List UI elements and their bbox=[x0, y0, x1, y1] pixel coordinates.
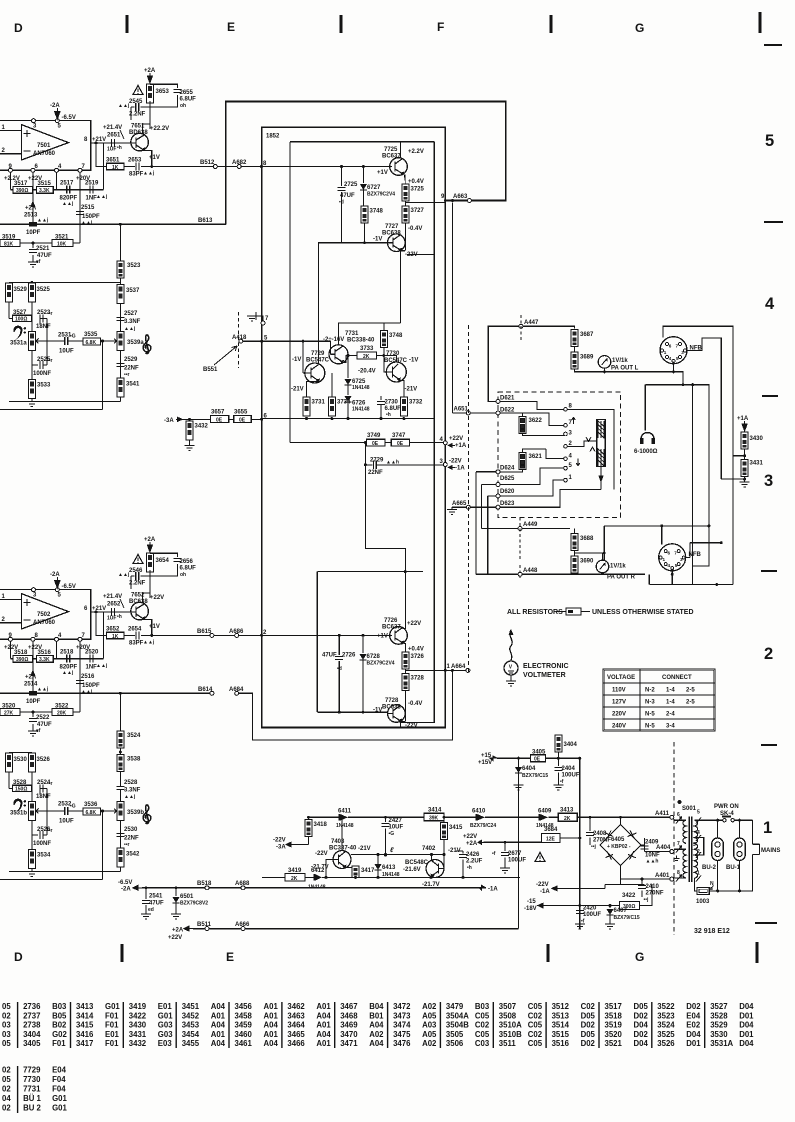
junction 6413 bbox=[377, 876, 380, 879]
svg-text:10K: 10K bbox=[57, 241, 67, 247]
row 220V bbox=[612, 712, 675, 718]
svg-text:2653: 2653 bbox=[128, 158, 142, 164]
junction 2410 bbox=[641, 878, 644, 881]
svg-text:2729: 2729 bbox=[370, 458, 384, 464]
svg-text:ed: ed bbox=[148, 907, 154, 913]
svg-text:•h: •h bbox=[467, 865, 472, 871]
svg-text:3508: 3508 bbox=[499, 1011, 517, 1020]
capacitor 2651 1UF bbox=[107, 139, 122, 153]
resistor 3418 bbox=[305, 820, 328, 837]
svg-text:240V: 240V bbox=[612, 724, 626, 730]
warning triangle 2546 bbox=[133, 555, 143, 564]
svg-text:2529: 2529 bbox=[124, 357, 138, 363]
junction 1 bbox=[444, 669, 447, 672]
svg-text:3: 3 bbox=[680, 557, 683, 562]
svg-text:2517: 2517 bbox=[60, 181, 74, 187]
svg-text:-2A: -2A bbox=[50, 572, 60, 578]
node B511 bbox=[205, 927, 209, 931]
diode D6404 bbox=[515, 766, 548, 779]
svg-text:3: 3 bbox=[33, 124, 37, 130]
svg-text:47UF: 47UF bbox=[340, 193, 355, 199]
junction tone mid bbox=[101, 340, 104, 343]
svg-text:A01: A01 bbox=[211, 1011, 226, 1020]
svg-text:F04: F04 bbox=[52, 1085, 66, 1094]
lamp BU-1 bbox=[734, 838, 746, 861]
right margin dash d bbox=[761, 570, 777, 572]
svg-text:+22V: +22V bbox=[463, 834, 477, 840]
svg-text:F04: F04 bbox=[52, 1075, 66, 1084]
emitter wire 7651 bbox=[148, 151, 152, 167]
svg-text:2522: 2522 bbox=[36, 715, 50, 721]
svg-text:2: 2 bbox=[764, 645, 773, 663]
emitter 7726 bbox=[404, 644, 406, 653]
svg-text:7: 7 bbox=[674, 550, 677, 555]
pin6 junction bbox=[260, 418, 263, 421]
component location table upper bbox=[2, 1002, 754, 1048]
svg-text:6: 6 bbox=[668, 550, 671, 555]
svg-text:3507: 3507 bbox=[499, 1002, 516, 1011]
node 4 bbox=[443, 441, 447, 445]
svg-text:A04: A04 bbox=[264, 1021, 279, 1030]
svg-text:▲▲j: ▲▲j bbox=[143, 640, 155, 646]
svg-text:2527: 2527 bbox=[124, 311, 138, 317]
svg-text:A04: A04 bbox=[211, 1021, 226, 1030]
svg-text:A448: A448 bbox=[523, 568, 538, 574]
svg-text:•G: •G bbox=[70, 334, 76, 340]
ground 6404 bbox=[514, 785, 524, 790]
pin 7 circle bbox=[78, 168, 82, 172]
svg-text:7731: 7731 bbox=[345, 331, 359, 337]
svg-text:100UF: 100UF bbox=[562, 773, 580, 779]
pin2 wire 2 bbox=[0, 622, 21, 624]
node B614 bbox=[210, 691, 214, 695]
mains bracket bbox=[753, 844, 760, 854]
svg-text:3539a: 3539a bbox=[127, 340, 144, 346]
svg-text:3416: 3416 bbox=[76, 1030, 94, 1039]
wire NFB L bbox=[687, 338, 721, 479]
switch right rail bbox=[566, 409, 615, 489]
svg-text:47UF: 47UF bbox=[149, 901, 164, 907]
svg-text:+21.4V: +21.4V bbox=[103, 594, 122, 600]
svg-text:3461: 3461 bbox=[235, 1039, 253, 1048]
wire pin5 base bbox=[243, 340, 331, 342]
svg-text:3504B: 3504B bbox=[446, 1021, 469, 1030]
svg-text:8: 8 bbox=[35, 633, 39, 639]
svg-text:PWR ON: PWR ON bbox=[714, 804, 739, 810]
svg-text:12E: 12E bbox=[546, 837, 556, 843]
capacitor 2541 47UF bbox=[142, 888, 164, 914]
top ruler tick 4 bbox=[759, 12, 762, 33]
svg-text:7725: 7725 bbox=[384, 147, 398, 153]
svg-text:6727: 6727 bbox=[367, 185, 381, 191]
resistor 3733 2K bbox=[357, 352, 377, 360]
top ruler tick 1 bbox=[126, 15, 129, 33]
resistor 3414 39K bbox=[424, 813, 444, 821]
svg-text:-18V: -18V bbox=[524, 906, 537, 912]
2655 loop wire bbox=[150, 84, 178, 107]
svg-text:3.3K: 3.3K bbox=[39, 657, 50, 663]
svg-text:2677: 2677 bbox=[508, 851, 522, 857]
transformer T1 primary bbox=[695, 820, 698, 878]
svg-text:BZX79/C15: BZX79/C15 bbox=[522, 773, 548, 779]
svg-text:F01: F01 bbox=[105, 1039, 119, 1048]
resistor 3687 bbox=[571, 330, 594, 347]
DIN connector R bbox=[659, 544, 686, 573]
svg-text:3516: 3516 bbox=[552, 1039, 570, 1048]
svg-text:BU-1: BU-1 bbox=[726, 865, 741, 871]
resistor 3732 bbox=[400, 397, 423, 416]
svg-text:ℓ: ℓ bbox=[389, 847, 394, 854]
resistor 3654 bbox=[146, 553, 169, 572]
switch contacts column bbox=[564, 408, 568, 482]
ground 6501 bbox=[171, 914, 181, 919]
junction dot 3431 bbox=[743, 478, 746, 481]
svg-text:D04: D04 bbox=[686, 1030, 701, 1039]
svg-text:A447: A447 bbox=[524, 320, 539, 326]
svg-text:6: 6 bbox=[35, 164, 39, 170]
svg-text:▲▲h: ▲▲h bbox=[646, 859, 659, 865]
2729 drop wire bbox=[364, 443, 366, 465]
wire DIN R top bbox=[604, 526, 709, 545]
junction on output 2 bbox=[95, 610, 98, 613]
svg-text:C02: C02 bbox=[581, 1002, 596, 1011]
svg-text:3475: 3475 bbox=[393, 1030, 411, 1039]
wire A665 row bbox=[0, 0, 1, 1]
capacitor 2655 bbox=[174, 90, 197, 110]
svg-text:C05: C05 bbox=[528, 1002, 543, 1011]
svg-text:F01: F01 bbox=[105, 1011, 119, 1020]
svg-text:B512: B512 bbox=[200, 160, 215, 166]
svg-text:3652: 3652 bbox=[106, 627, 120, 633]
diode 6411 bbox=[336, 809, 354, 830]
svg-text:2541: 2541 bbox=[149, 894, 163, 900]
svg-text:A04: A04 bbox=[316, 1030, 331, 1039]
svg-text:3.3K: 3.3K bbox=[39, 188, 50, 194]
psu arrow left bbox=[286, 842, 294, 847]
wire D620 row bbox=[488, 496, 498, 574]
svg-text:••r: ••r bbox=[124, 842, 130, 848]
switch SK-4 bbox=[722, 817, 753, 827]
svg-text:02: 02 bbox=[2, 1066, 11, 1075]
svg-text:3414: 3414 bbox=[428, 808, 442, 814]
svg-text:BU-2: BU-2 bbox=[702, 865, 717, 871]
svg-text:AN7060: AN7060 bbox=[33, 620, 56, 626]
capacitor 2523 bbox=[40, 314, 43, 322]
wiper arrow 3539b bbox=[112, 809, 117, 814]
svg-text:6728: 6728 bbox=[367, 654, 381, 660]
pin2 wire bbox=[0, 153, 21, 155]
svg-text:B551: B551 bbox=[203, 367, 218, 373]
svg-text:C05: C05 bbox=[475, 1030, 490, 1039]
svg-text:A01: A01 bbox=[211, 1030, 226, 1039]
capacitor 2653 83PF bbox=[136, 163, 139, 171]
pin 5 circle 2 bbox=[55, 588, 59, 592]
capacitor 2517 bbox=[67, 186, 70, 194]
svg-text:+22.2V: +22.2V bbox=[150, 126, 169, 132]
wire B613 bbox=[0, 223, 226, 225]
capacitor 2652 1UF bbox=[107, 608, 122, 622]
capacitor 2529 bbox=[116, 364, 124, 367]
svg-text:6404: 6404 bbox=[522, 766, 536, 772]
contact labels bbox=[569, 404, 573, 482]
svg-text:22NF: 22NF bbox=[368, 470, 383, 476]
switch pin column bbox=[565, 409, 567, 480]
svg-text:3452: 3452 bbox=[182, 1011, 200, 1020]
resistor 3734 bbox=[328, 373, 351, 416]
svg-text:390Ω: 390Ω bbox=[16, 188, 28, 194]
svg-text:B04: B04 bbox=[369, 1002, 384, 1011]
svg-text:-2A: -2A bbox=[50, 103, 60, 109]
pin 9 circle bbox=[8, 168, 12, 172]
svg-text:7729: 7729 bbox=[23, 1066, 41, 1075]
resistor 3517 390ohm bbox=[13, 187, 32, 195]
svg-text:3510B: 3510B bbox=[499, 1030, 522, 1039]
svg-text:3725: 3725 bbox=[411, 187, 425, 193]
svg-text:A666: A666 bbox=[235, 922, 250, 928]
svg-text:-22V: -22V bbox=[315, 851, 328, 857]
svg-text:B03: B03 bbox=[52, 1002, 67, 1011]
resistor 3622 bbox=[519, 413, 566, 436]
svg-text:▲▲j: ▲▲j bbox=[118, 103, 130, 109]
resistor 3748a bbox=[361, 206, 384, 223]
collector wire 7652 up bbox=[143, 589, 150, 603]
svg-text:3505: 3505 bbox=[446, 1030, 464, 1039]
svg-text:A686: A686 bbox=[229, 629, 244, 635]
node A664 bbox=[466, 668, 470, 672]
row 240V bbox=[612, 724, 675, 730]
junction 3418 top bbox=[307, 816, 310, 819]
wire A664 stub bbox=[405, 669, 466, 671]
svg-text:A01: A01 bbox=[264, 1011, 279, 1020]
svg-text:100NF: 100NF bbox=[33, 841, 51, 847]
svg-text:V: V bbox=[509, 665, 513, 671]
svg-text:3527: 3527 bbox=[710, 1002, 727, 1011]
junction 7403 col bbox=[341, 816, 344, 819]
resistor 3419 2K bbox=[285, 874, 305, 882]
pin4 drop wire 2 bbox=[56, 641, 58, 659]
svg-text:•G: •G bbox=[70, 804, 76, 810]
transistor Q7726 bbox=[390, 627, 408, 645]
svg-text:3458: 3458 bbox=[235, 1011, 253, 1020]
svg-text:270NF: 270NF bbox=[646, 891, 664, 897]
svg-text:D04: D04 bbox=[739, 1002, 754, 1011]
svg-text:F01: F01 bbox=[105, 1021, 119, 1030]
minus mark 2 bbox=[24, 619, 31, 621]
right margin dash f bbox=[755, 922, 777, 924]
svg-text:••j: ••j bbox=[644, 897, 650, 903]
svg-text:3471: 3471 bbox=[340, 1039, 358, 1048]
svg-text:C02: C02 bbox=[528, 1030, 543, 1039]
plus mark bbox=[24, 130, 31, 137]
svg-text:2726: 2726 bbox=[342, 653, 356, 659]
svg-text:G01: G01 bbox=[158, 1011, 173, 1020]
capacitor 2520 bbox=[90, 655, 93, 663]
node A447 bbox=[519, 324, 523, 328]
svg-text:1: 1 bbox=[447, 664, 451, 670]
svg-text:F: F bbox=[437, 20, 444, 34]
dashed stub A449 bbox=[519, 518, 521, 579]
svg-text:VOLTMETER: VOLTMETER bbox=[523, 672, 566, 679]
pin 4 circle bbox=[55, 168, 59, 172]
svg-text:3689: 3689 bbox=[580, 355, 594, 361]
svg-text:A02: A02 bbox=[422, 1002, 437, 1011]
potentiometer 3531 bbox=[28, 332, 41, 351]
svg-text:+21V: +21V bbox=[92, 137, 106, 143]
capacitor 2522 bbox=[29, 712, 52, 734]
resistor 3413 2K bbox=[558, 813, 577, 822]
svg-text:2.2NF: 2.2NF bbox=[129, 581, 146, 587]
svg-text:6.8UF: 6.8UF bbox=[180, 566, 197, 572]
svg-text:BZX79/C15: BZX79/C15 bbox=[614, 915, 640, 921]
junction meter L bbox=[603, 370, 606, 373]
svg-text:3404: 3404 bbox=[564, 742, 578, 748]
transistor Q7651 bbox=[115, 133, 149, 151]
svg-text:390Ω: 390Ω bbox=[16, 657, 28, 663]
svg-text:PA OUT L: PA OUT L bbox=[611, 366, 639, 372]
junction mid R bbox=[603, 552, 606, 555]
svg-text:3517: 3517 bbox=[605, 1002, 622, 1011]
svg-text:05: 05 bbox=[2, 1002, 11, 1011]
resistor 3621 bbox=[500, 449, 566, 472]
emitter wire 7725 bbox=[404, 175, 406, 185]
node B512 bbox=[213, 165, 217, 169]
junction lamp2 bottom bbox=[738, 889, 741, 892]
svg-text:2520: 2520 bbox=[85, 650, 99, 656]
svg-text:5: 5 bbox=[58, 593, 62, 599]
svg-text:C02: C02 bbox=[475, 1021, 490, 1030]
svg-text:+0.4V: +0.4V bbox=[408, 179, 424, 185]
svg-text:••r: ••r bbox=[47, 311, 53, 317]
svg-text:3726: 3726 bbox=[411, 654, 425, 660]
svg-text:6413: 6413 bbox=[382, 865, 396, 871]
wire +22V row bbox=[290, 442, 445, 444]
svg-text:3531A: 3531A bbox=[710, 1039, 733, 1048]
svg-text:220V: 220V bbox=[612, 712, 626, 718]
svg-text:3456: 3456 bbox=[235, 1002, 253, 1011]
resistor 3690 bbox=[571, 556, 594, 574]
junction 3748b bbox=[382, 354, 385, 357]
svg-text:▲▲j: ▲▲j bbox=[37, 687, 49, 693]
pin 8 circle 2 bbox=[31, 637, 35, 641]
lamp stems top bbox=[718, 820, 740, 838]
primary tap 4 bracket bbox=[695, 838, 704, 855]
svg-text:3657: 3657 bbox=[211, 410, 225, 416]
resistor 3728 bbox=[402, 674, 425, 691]
svg-text:1003: 1003 bbox=[696, 899, 710, 905]
capacitor 2656 bbox=[174, 559, 197, 579]
resistor 3725 bbox=[402, 184, 425, 201]
svg-text:3432: 3432 bbox=[195, 424, 209, 430]
meter PA OUT R bbox=[596, 553, 609, 574]
svg-text:3525: 3525 bbox=[37, 287, 51, 293]
capacitor 2519 bbox=[90, 186, 93, 194]
resistor 3653 bbox=[146, 84, 169, 103]
svg-text:1N4148: 1N4148 bbox=[536, 823, 554, 829]
svg-text:-6.5V: -6.5V bbox=[118, 880, 132, 886]
capacitor 2426 bbox=[456, 851, 483, 877]
right margin dash e bbox=[761, 744, 777, 746]
wire meter L right bbox=[645, 372, 709, 526]
svg-text:6501: 6501 bbox=[180, 894, 194, 900]
wire +2A rail bbox=[484, 841, 561, 843]
svg-text:3474: 3474 bbox=[393, 1021, 411, 1030]
psu +22 arrow bbox=[478, 840, 484, 844]
amplifier module 1852 box bbox=[262, 127, 446, 727]
svg-text:4: 4 bbox=[765, 295, 775, 313]
wire D623 row bbox=[452, 506, 498, 508]
svg-text:2-5: 2-5 bbox=[686, 700, 695, 706]
svg-text:3541: 3541 bbox=[126, 382, 140, 388]
junction 2427 bbox=[384, 816, 387, 819]
switch wiring pin1 bbox=[500, 480, 566, 496]
svg-text:BZX79/C24: BZX79/C24 bbox=[470, 823, 496, 829]
svg-text:3463: 3463 bbox=[287, 1011, 305, 1020]
7731 emitter to 3733 bbox=[344, 356, 357, 363]
svg-text:0E: 0E bbox=[216, 417, 223, 423]
svg-text:+21V: +21V bbox=[92, 606, 106, 612]
svg-text:2519: 2519 bbox=[85, 181, 99, 187]
secondary tap 6 wire bbox=[674, 819, 686, 821]
wire 3733 to 7730 base bbox=[377, 356, 397, 373]
resistor 3748b bbox=[380, 323, 403, 356]
svg-text:D02: D02 bbox=[581, 1039, 596, 1048]
svg-text:2725: 2725 bbox=[344, 182, 358, 188]
feedback wire to output bbox=[103, 143, 105, 190]
svg-text:B03: B03 bbox=[475, 1002, 490, 1011]
svg-text:D04: D04 bbox=[634, 1021, 649, 1030]
wire DIN L bottom bbox=[673, 363, 675, 372]
junction 6501 bbox=[175, 886, 178, 889]
svg-text:1: 1 bbox=[664, 350, 667, 355]
svg-text:3432: 3432 bbox=[129, 1039, 147, 1048]
resistor 3519 81K bbox=[0, 240, 20, 248]
resistor 3521 10K bbox=[52, 240, 73, 248]
svg-text:3479: 3479 bbox=[446, 1002, 464, 1011]
junction 3726/3728 bbox=[404, 669, 406, 674]
svg-text:••r: ••r bbox=[47, 358, 53, 364]
right margin dash b bbox=[764, 221, 783, 223]
svg-text:+1A: +1A bbox=[737, 416, 749, 422]
svg-text:3417: 3417 bbox=[76, 1039, 93, 1048]
svg-text:18NF: 18NF bbox=[36, 794, 51, 800]
svg-text:2513: 2513 bbox=[24, 213, 38, 219]
ch2 inner rail top bbox=[317, 571, 423, 573]
node A448 bbox=[518, 572, 522, 576]
lamp BU-2 bbox=[712, 838, 724, 861]
svg-text:+1A: +1A bbox=[455, 443, 467, 449]
svg-text:-1V: -1V bbox=[409, 358, 418, 364]
svg-text:BC637: BC637 bbox=[382, 154, 401, 160]
svg-text:•G: •G bbox=[389, 831, 395, 837]
svg-text:A401: A401 bbox=[655, 873, 670, 879]
3418 column bbox=[294, 817, 309, 844]
svg-text:A04: A04 bbox=[264, 1039, 279, 1048]
svg-text:A05: A05 bbox=[422, 1030, 437, 1039]
primary tap 1 wire bbox=[695, 878, 698, 891]
7731 collector up bbox=[339, 323, 401, 345]
pin8 drop wire 2 bbox=[32, 641, 34, 693]
svg-text:8: 8 bbox=[84, 137, 88, 143]
svg-text:3747: 3747 bbox=[392, 433, 406, 439]
svg-text:3542: 3542 bbox=[126, 852, 140, 858]
resistor 3530 bbox=[5, 753, 27, 772]
+22V inner rail top bbox=[290, 141, 434, 143]
resistor 3422 300ohm bbox=[620, 902, 640, 911]
V arrow mark bbox=[586, 437, 591, 442]
resistor 3542 bbox=[117, 848, 140, 867]
node A404 bbox=[670, 850, 674, 854]
svg-text:D: D bbox=[14, 21, 23, 35]
